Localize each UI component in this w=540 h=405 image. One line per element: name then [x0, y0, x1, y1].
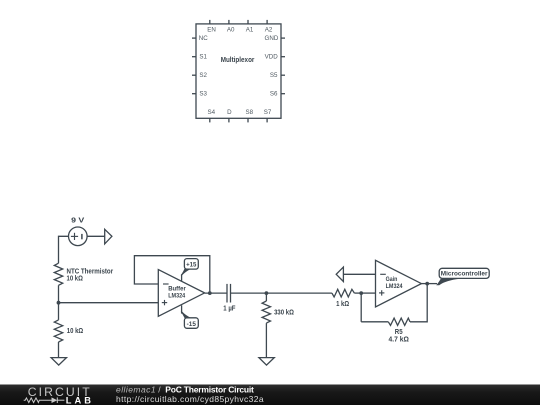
capacitor C1 plates	[226, 284, 228, 303]
wire gain - input to flag	[343, 273, 375, 275]
junction node B dot	[265, 291, 269, 295]
multiplexor pin VDD	[281, 56, 285, 58]
buffer minus	[163, 283, 169, 285]
ground GND2	[259, 358, 274, 366]
wire V1 right to flag	[87, 235, 105, 237]
multiplexor pin A0	[228, 20, 230, 24]
svg-text:http://circuitlab.com/cyd85pyh: http://circuitlab.com/cyd85pyhvc32a	[116, 394, 264, 404]
multiplexor pin EN	[209, 20, 211, 24]
wire C1 to node B	[231, 292, 267, 294]
svg-text:D: D	[227, 109, 232, 116]
multiplexor pin S6	[281, 93, 285, 95]
resistor R4 1k	[332, 289, 355, 297]
voltage source V1 9V	[69, 227, 88, 246]
footer bar	[0, 385, 540, 405]
power flag -15 box	[184, 318, 198, 329]
mux pin labels	[199, 27, 279, 117]
power lead +15	[181, 274, 183, 281]
svg-text:+15: +15	[186, 261, 197, 268]
wire R5 to output node	[410, 284, 427, 322]
wire R4 to node C	[354, 292, 361, 294]
wire node A to buffer +	[59, 302, 159, 304]
multiplexor pin D	[228, 118, 230, 122]
svg-text:EN: EN	[207, 27, 216, 34]
junction buffer output dot	[208, 291, 212, 295]
wire buffer output	[205, 292, 227, 294]
multiplexor pin S3	[192, 93, 196, 95]
svg-text:1 kΩ: 1 kΩ	[336, 301, 349, 308]
svg-text:VDD: VDD	[265, 54, 279, 61]
logo mini schematic	[24, 397, 65, 403]
multiplexor pin A1	[247, 20, 249, 24]
gain plus	[379, 292, 384, 294]
wire gain output	[421, 283, 437, 285]
node flag F1 (right arrow)	[105, 229, 112, 244]
svg-text:S2: S2	[199, 72, 207, 79]
svg-text:S1: S1	[199, 54, 207, 61]
svg-text:-15: -15	[187, 321, 197, 328]
resistor R1 NTC thermistor	[54, 263, 62, 285]
svg-text:LM324: LM324	[168, 292, 185, 299]
svg-text:330 kΩ: 330 kΩ	[274, 310, 294, 317]
svg-text:GND: GND	[265, 35, 279, 42]
wire buffer feedback	[134, 256, 209, 293]
source symbol marks	[71, 233, 386, 305]
svg-text:S8: S8	[246, 109, 254, 116]
svg-text:S4: S4	[208, 109, 216, 116]
svg-text:Gain: Gain	[386, 276, 398, 283]
wire NTC to node A	[58, 285, 60, 302]
multiplexor pin GND	[281, 37, 285, 39]
resistor R3 330k	[262, 301, 270, 323]
op-amp U3 gain triangle	[376, 260, 422, 307]
multiplexor pin S1	[192, 56, 196, 58]
svg-text:A1: A1	[246, 27, 254, 34]
V1 plus sign	[71, 235, 78, 237]
ground GND1	[51, 358, 66, 366]
logo diode	[52, 397, 58, 403]
svg-text:1 µF: 1 µF	[223, 306, 236, 313]
wire to R5	[361, 321, 388, 323]
swoosh +15	[181, 269, 191, 275]
svg-text:A2: A2	[265, 27, 273, 34]
multiplexor pin S7	[266, 118, 268, 122]
multiplexor pin S5	[281, 74, 285, 76]
multiplexor U1 body	[196, 24, 281, 118]
svg-text:Multiplexor: Multiplexor	[221, 57, 255, 64]
svg-text:S7: S7	[264, 109, 272, 116]
svg-text:S5: S5	[270, 72, 278, 79]
wire node B to R3	[265, 293, 267, 301]
svg-text:10 kΩ: 10 kΩ	[67, 276, 84, 283]
multiplexor pin NC	[192, 37, 196, 39]
junction gain output dot	[425, 282, 429, 286]
svg-text:4.7 kΩ: 4.7 kΩ	[389, 336, 410, 343]
svg-text:LAB: LAB	[66, 395, 94, 405]
node flag F2 (left arrow)	[336, 267, 343, 281]
swoosh -15	[181, 312, 191, 318]
svg-text:NC: NC	[199, 35, 208, 42]
junction node C dot	[359, 291, 363, 295]
svg-text:S3: S3	[199, 91, 207, 98]
wire feedback node C down	[360, 293, 362, 322]
wire node A down to R2	[58, 303, 60, 320]
svg-text:A0: A0	[227, 27, 235, 34]
multiplexor pin S8	[247, 118, 249, 122]
wire node C to gain +	[361, 292, 375, 294]
svg-text:Microcontroller: Microcontroller	[441, 271, 488, 278]
multiplexor pin S2	[192, 74, 196, 76]
svg-text:S6: S6	[270, 91, 278, 98]
resistor R5 4.7k	[388, 318, 410, 325]
wire V1 left to node	[59, 236, 69, 263]
svg-text:NTC Thermistor: NTC Thermistor	[67, 269, 114, 276]
svg-text:LM324: LM324	[386, 283, 403, 290]
buffer plus	[162, 302, 167, 304]
svg-text:R5: R5	[395, 329, 403, 336]
svg-text:10 kΩ: 10 kΩ	[67, 328, 84, 335]
flag Microcontroller box	[439, 268, 489, 278]
svg-text:9 V: 9 V	[71, 218, 85, 225]
wire R3 to ground	[265, 323, 267, 358]
gain minus	[380, 273, 386, 275]
resistor R2 10k	[54, 320, 62, 342]
wire R2 to ground	[58, 342, 60, 358]
V1 bar	[81, 234, 83, 239]
swoosh Microcontroller	[436, 279, 460, 286]
power lead -15	[181, 305, 183, 313]
wire node B to R4	[266, 292, 332, 294]
multiplexor pin S4	[209, 118, 211, 122]
multiplexor pin A2	[266, 20, 268, 24]
op-amp U2 buffer triangle	[158, 270, 204, 317]
junction node A dot	[57, 301, 61, 305]
power flag +15 box	[184, 259, 198, 270]
